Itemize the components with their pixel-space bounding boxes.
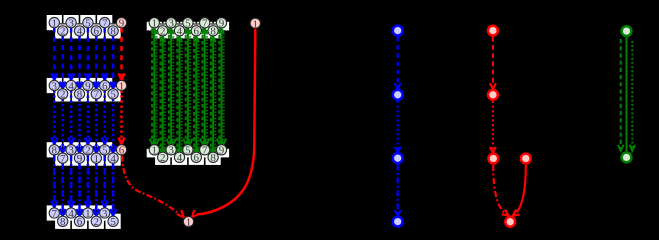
- node id2-3: [166, 145, 176, 157]
- red orbit: dash-dot curve into cycle: [493, 165, 508, 215]
- sigma arrow row2-row3 pos7: [102, 91, 108, 145]
- node r1-5: [83, 17, 93, 29]
- svg-text:2: 2: [160, 152, 166, 164]
- identity arrows element 1: [150, 28, 159, 144]
- blue orbit dot 4: [393, 217, 403, 227]
- blue orbit dot 2: [393, 90, 403, 100]
- blue orbit: first step dashed arrow: [395, 37, 401, 89]
- svg-text:5: 5: [102, 145, 108, 157]
- node r1-3: [66, 17, 76, 29]
- node r2-8: [74, 89, 84, 101]
- identity arrows element 8: [208, 36, 217, 151]
- svg-text:9: 9: [77, 153, 83, 165]
- node r3-5: [100, 145, 110, 157]
- svg-text:1: 1: [152, 145, 158, 157]
- svg-text:7: 7: [60, 153, 66, 165]
- identity arrows element 5: [183, 28, 192, 144]
- svg-text:8: 8: [52, 145, 58, 157]
- zigzag order lines row1: [60, 23, 116, 25]
- svg-text:3: 3: [102, 208, 108, 220]
- node r4-4: [66, 208, 76, 220]
- sigma arrow row3-row4 pos1: [51, 155, 57, 207]
- node r4-5: [108, 216, 118, 228]
- svg-text:5: 5: [110, 89, 116, 101]
- node id2-2: [158, 152, 168, 164]
- node r2-5: [108, 89, 118, 101]
- node r1-2: [58, 26, 68, 38]
- white backing boxes: identity row 1: [147, 22, 229, 39]
- svg-text:8: 8: [210, 152, 216, 164]
- red orbit dot 4 (cycle partner): [521, 154, 531, 164]
- node id2-9: [216, 145, 226, 157]
- svg-text:6: 6: [119, 145, 125, 157]
- svg-text:1: 1: [94, 153, 100, 165]
- node id1-7: [200, 18, 210, 30]
- blue orbit dot 1: [393, 26, 403, 36]
- svg-text:4: 4: [177, 152, 183, 164]
- red orbit: solid return curve: [513, 165, 526, 216]
- node r1-8: [108, 26, 118, 38]
- zigzag order lines row3: [60, 150, 116, 152]
- node r1-9: [116, 17, 126, 29]
- sigma arrow row2-row3 pos2: [60, 99, 66, 152]
- svg-text:4: 4: [68, 208, 74, 220]
- sigma arrow row1-row2 pos1: [51, 28, 57, 80]
- node r3-7: [58, 153, 68, 165]
- node id2-8: [208, 152, 218, 164]
- zigzag order lines identity row1: [160, 23, 216, 25]
- svg-text:1: 1: [85, 208, 91, 220]
- sigma arrow row2-row3 pos6: [93, 99, 99, 152]
- svg-text:8: 8: [60, 216, 66, 228]
- node r2-9: [83, 80, 93, 92]
- red orbit: second step dotted arrow: [490, 101, 496, 153]
- green fixed point dot top: [622, 26, 632, 36]
- sigma arrow row3-row4 pos8: [110, 163, 116, 215]
- sigma arrow row3-row4 pos7: [102, 155, 108, 207]
- red cycle curve from node 6 to collapsed node 1: [122, 156, 184, 218]
- green fixed point: solid line: [626, 37, 628, 151]
- svg-text:1: 1: [253, 18, 259, 30]
- identity arrows element 6: [192, 36, 201, 151]
- sigma arrow row3-row4 pos3: [68, 155, 74, 207]
- svg-text:1: 1: [52, 17, 58, 29]
- svg-text:6: 6: [194, 152, 200, 164]
- node r3-8: [49, 145, 59, 157]
- sigma arrow row3-row4 pos2: [60, 163, 66, 215]
- svg-text:4: 4: [77, 26, 83, 38]
- sigma arrow row1-row2 pos3: [68, 28, 74, 80]
- svg-text:5: 5: [110, 216, 116, 228]
- svg-text:1: 1: [119, 80, 125, 92]
- node id2-6: [191, 152, 201, 164]
- svg-text:8: 8: [210, 26, 216, 38]
- blue orbit dot 3: [393, 153, 403, 163]
- svg-text:7: 7: [202, 145, 208, 157]
- node r3-6: [116, 145, 126, 157]
- svg-text:6: 6: [77, 216, 83, 228]
- node r3-2: [83, 145, 93, 157]
- svg-text:9: 9: [219, 18, 225, 30]
- node r3-9: [74, 153, 84, 165]
- node r2-6: [100, 80, 110, 92]
- node r2-2: [58, 89, 68, 101]
- node id1-8: [208, 26, 218, 38]
- svg-text:2: 2: [160, 26, 166, 38]
- svg-text:4: 4: [110, 153, 116, 165]
- node r1-6: [91, 26, 101, 38]
- node id2-4: [174, 152, 184, 164]
- standalone node 1 top right: [250, 18, 260, 30]
- svg-text:9: 9: [119, 17, 125, 29]
- svg-text:5: 5: [85, 17, 91, 29]
- node r3-3: [66, 145, 76, 157]
- identity arrows element 9: [217, 28, 226, 144]
- sigma arrow row1-row2 pos9: [119, 28, 125, 80]
- node r2-3: [49, 80, 59, 92]
- node r4-1: [83, 208, 93, 220]
- blue orbit: third step dash-dot arrow: [395, 164, 401, 215]
- white backing boxes: permutation row 4: [47, 205, 121, 229]
- sigma arrow row2-row3 pos5: [85, 91, 91, 145]
- red orbit dot 2: [488, 90, 498, 100]
- svg-text:2: 2: [60, 26, 66, 38]
- svg-text:6: 6: [102, 80, 108, 92]
- node id1-6: [191, 26, 201, 38]
- svg-text:5: 5: [185, 18, 191, 30]
- red orbit dot 1: [488, 26, 498, 36]
- svg-text:7: 7: [102, 17, 108, 29]
- node id2-7: [200, 145, 210, 157]
- node id1-9: [216, 18, 226, 30]
- node r4-3: [100, 208, 110, 220]
- sigma arrow row2-row3 pos1: [51, 91, 57, 145]
- node r2-1: [116, 80, 126, 92]
- identity arrows element 3: [166, 28, 175, 144]
- sigma arrow row3-row4 pos5: [85, 155, 91, 207]
- svg-text:3: 3: [168, 18, 174, 30]
- svg-text:2: 2: [60, 89, 66, 101]
- node r3-4: [108, 153, 118, 165]
- sigma arrow row1-row2 pos4: [77, 36, 83, 88]
- svg-text:6: 6: [194, 26, 200, 38]
- node id1-5: [183, 18, 193, 30]
- red orbit dot 3 (cycle entry): [488, 154, 498, 164]
- svg-text:9: 9: [219, 145, 225, 157]
- svg-text:9: 9: [85, 80, 91, 92]
- node r2-7: [91, 89, 101, 101]
- svg-text:3: 3: [52, 80, 58, 92]
- node r4-2: [91, 216, 101, 228]
- sigma arrow row2-row3 pos4: [77, 99, 83, 152]
- sigma arrow row1-row2 pos5: [85, 28, 91, 80]
- svg-text:3: 3: [68, 17, 74, 29]
- node id2-1: [149, 145, 159, 157]
- red solid curve from standalone 1 down to collapsed node 1: [192, 29, 255, 217]
- node r3-1: [91, 153, 101, 165]
- svg-text:4: 4: [68, 80, 74, 92]
- zigzag order lines identity row2: [160, 150, 216, 152]
- white backing boxes: permutation row 3: [47, 142, 121, 166]
- identity arrows element 7: [200, 28, 209, 144]
- identity arrows element 4: [175, 36, 184, 151]
- svg-text:1: 1: [152, 18, 158, 30]
- red orbit: first step dashed arrow: [490, 37, 496, 89]
- sigma arrow row1-row2 pos6: [93, 36, 99, 88]
- node r4-6: [74, 216, 84, 228]
- blue orbit: second step dotted arrow: [395, 101, 401, 152]
- node id1-1: [149, 18, 159, 30]
- svg-text:4: 4: [177, 26, 183, 38]
- node id2-5: [183, 145, 193, 157]
- sigma arrow row1-row2 pos7: [102, 28, 108, 80]
- white backing boxes: identity row 2: [147, 149, 229, 165]
- node r1-7: [100, 17, 110, 29]
- svg-text:8: 8: [110, 26, 116, 38]
- svg-text:2: 2: [85, 145, 91, 157]
- svg-text:7: 7: [94, 89, 100, 101]
- svg-text:5: 5: [185, 145, 191, 157]
- green fixed point: dashed arrow: [618, 39, 624, 151]
- node id1-4: [174, 26, 184, 38]
- svg-text:3: 3: [168, 145, 174, 157]
- green fixed point: dotted arrow: [630, 41, 636, 151]
- zigzag order lines row2: [60, 86, 116, 88]
- sigma arrow row1-row2 pos2: [60, 36, 66, 88]
- node r4-8: [58, 216, 68, 228]
- sigma arrow row2-row3 pos8: [110, 99, 116, 152]
- node r2-4: [66, 80, 76, 92]
- node r1-4: [74, 26, 84, 38]
- sigma arrow row1-row2 pos8: [110, 36, 116, 88]
- sigma arrow row2-row3 pos9: [119, 91, 125, 145]
- green fixed point dot bottom: [622, 153, 632, 163]
- red orbit dot 5 (cycle bottom): [505, 217, 515, 227]
- identity arrows element 2: [158, 36, 167, 151]
- svg-text:6: 6: [94, 26, 100, 38]
- svg-text:8: 8: [77, 89, 83, 101]
- white backing boxes: permutation row 2: [47, 78, 121, 102]
- svg-text:7: 7: [52, 208, 58, 220]
- white backing boxes: permutation row 1: [47, 15, 121, 39]
- sigma arrow row3-row4 pos4: [77, 163, 83, 215]
- node r1-1: [49, 17, 59, 29]
- svg-text:7: 7: [202, 18, 208, 30]
- svg-text:2: 2: [94, 216, 100, 228]
- node id1-3: [166, 18, 176, 30]
- svg-text:1: 1: [186, 217, 192, 229]
- node id1-2: [158, 26, 168, 38]
- collapsed cycle node 1 bottom: [183, 216, 193, 228]
- svg-text:3: 3: [68, 145, 74, 157]
- node r4-7: [49, 208, 59, 220]
- zigzag order lines row4: [60, 213, 99, 215]
- sigma arrow row2-row3 pos3: [68, 91, 74, 145]
- sigma arrow row3-row4 pos6: [93, 163, 99, 215]
